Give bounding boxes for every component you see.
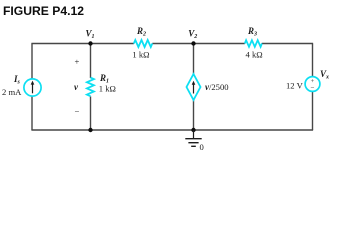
wire right vertical below 12V source [312, 91, 314, 130]
svg-text:−: − [311, 84, 315, 92]
svg-text:V1: V1 [86, 29, 95, 41]
svg-text:1 kΩ: 1 kΩ [132, 50, 149, 60]
svg-text:R3: R3 [247, 26, 257, 38]
node dot bottom of middle branch [191, 128, 195, 132]
wire middle branch upper lead [193, 44, 195, 75]
node dot bottom of R1 branch [88, 128, 92, 132]
wire left vertical above source [31, 44, 33, 80]
node V2 dot [191, 41, 195, 45]
svg-text:R2: R2 [136, 26, 146, 38]
wire middle branch lower lead [193, 100, 195, 131]
svg-text:v: v [74, 82, 79, 92]
wire bottom [31, 129, 313, 131]
svg-text:2 mA: 2 mA [2, 87, 22, 97]
current source arrow [31, 81, 35, 94]
resistor R1 (vertical zigzag) [87, 78, 94, 97]
wire R1 branch lower lead [90, 96, 92, 130]
wire left vertical below source [31, 96, 33, 130]
svg-text:12 V: 12 V [286, 81, 304, 91]
ground bar 1 [185, 138, 201, 140]
svg-text:FIGURE P4.12: FIGURE P4.12 [3, 4, 84, 18]
wire top: R2 to R3 [152, 43, 245, 45]
svg-text:Is: Is [13, 74, 21, 86]
dependent current source v/2500 (diamond) [187, 74, 201, 100]
node V1 dot [88, 41, 92, 45]
current source Is circle [24, 79, 41, 96]
voltage source 12V circle [305, 77, 320, 92]
wire top: left corner to R2 [31, 43, 133, 45]
svg-text:0: 0 [200, 142, 204, 152]
ground stub wire [193, 130, 195, 139]
wire top: R3 to right corner [262, 43, 313, 45]
svg-text:V2: V2 [188, 29, 197, 41]
resistor R2 (horizontal zigzag) [134, 40, 153, 47]
dependent source arrow [192, 81, 196, 94]
wire R1 branch upper lead [90, 44, 92, 79]
svg-text:+: + [75, 57, 80, 67]
resistor R3 (horizontal zigzag) [245, 40, 262, 47]
svg-text:Vx: Vx [320, 69, 329, 81]
wire right vertical above 12V source [312, 44, 314, 77]
svg-text:4 kΩ: 4 kΩ [246, 50, 263, 60]
ground bar 3 [191, 145, 196, 147]
ground bar 2 [188, 142, 198, 144]
svg-text:1 kΩ: 1 kΩ [99, 84, 116, 94]
svg-text:/2500: /2500 [209, 82, 229, 92]
svg-text:−: − [75, 106, 80, 116]
